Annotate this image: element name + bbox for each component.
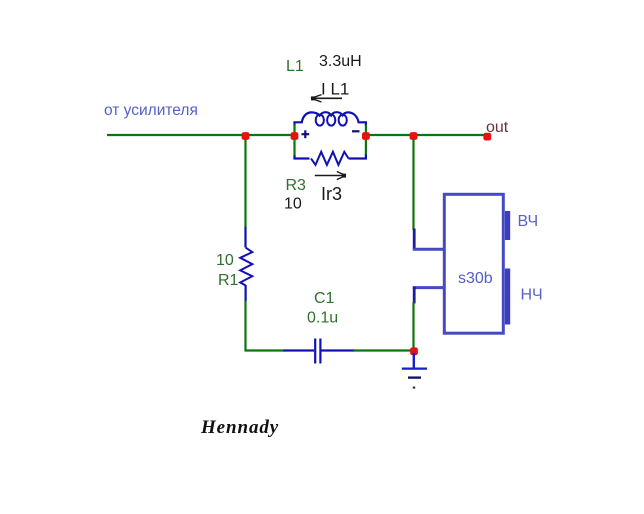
resistor R1 leads (blue) (244, 227, 246, 248)
svg-text:Hennady: Hennady (200, 417, 279, 438)
speaker terminal tab НЧ (505, 269, 510, 325)
junction node dot 2 (291, 132, 299, 140)
resistor R1 zigzag (240, 248, 252, 286)
junction node dot ground (410, 347, 418, 355)
wire from node B down to speaker (412, 135, 414, 230)
current arrow Ir3 (points right) (315, 175, 343, 177)
wire main horizontal from amplifier to loop (107, 134, 295, 136)
wire from lower stub down to ground node (412, 302, 414, 351)
inductor L1 coil (295, 112, 366, 126)
speaker stub wire lower horizontal (413, 286, 445, 289)
current arrow I L1 (points left) (312, 97, 343, 99)
svg-text:R3: R3 (286, 177, 307, 194)
speaker stub wire upper horizontal (413, 248, 445, 251)
junction node dot 4 (410, 132, 418, 140)
resistor R3 leads on loop bottom (295, 156, 310, 159)
wire main horizontal from loop to out (366, 134, 488, 136)
wire bottom rail right of C1 (353, 349, 414, 351)
junction node dot 1 (242, 132, 250, 140)
svg-text:10: 10 (216, 252, 234, 269)
svg-text:от усилителя: от усилителя (104, 102, 198, 119)
polarity + mark (302, 133, 310, 135)
L1 coil loop 3 (339, 115, 347, 126)
svg-text:C1: C1 (314, 290, 335, 307)
junction node dot 3 (362, 132, 370, 140)
capacitor C1 plates (314, 339, 316, 364)
junction node dot out (483, 133, 491, 141)
svg-text:3.3uH: 3.3uH (319, 53, 362, 70)
svg-text:0.1u: 0.1u (307, 310, 338, 327)
wire R1 bottom to bottom rail (244, 301, 246, 352)
speaker box s30b (444, 194, 503, 333)
svg-text:R1: R1 (218, 272, 239, 289)
svg-text:НЧ: НЧ (521, 287, 543, 304)
polarity - mark (352, 130, 360, 132)
speaker stub wire lower vertical (navy) (413, 287, 416, 304)
svg-text:I L1: I L1 (321, 80, 349, 99)
L1 coil loop 2 (327, 115, 335, 126)
capacitor C1 leads (284, 349, 315, 351)
speaker terminal tab ВЧ (505, 211, 510, 240)
svg-text:Ir3: Ir3 (321, 184, 342, 204)
svg-text:ВЧ: ВЧ (518, 213, 539, 230)
svg-text:s30b: s30b (458, 270, 493, 287)
resistor R3 zigzag (311, 152, 349, 165)
ground symbol (413, 353, 415, 368)
speaker stub wire upper vertical (navy) (413, 229, 416, 251)
L1 coil loop 1 (316, 115, 324, 126)
loop right vertical wire (365, 125, 367, 157)
svg-text:L1: L1 (286, 58, 304, 75)
wire vertical from node A down to R1 (244, 135, 246, 228)
svg-text:10: 10 (284, 196, 302, 213)
wire bottom rail left of C1 (245, 349, 285, 351)
loop left vertical wire (293, 124, 295, 157)
